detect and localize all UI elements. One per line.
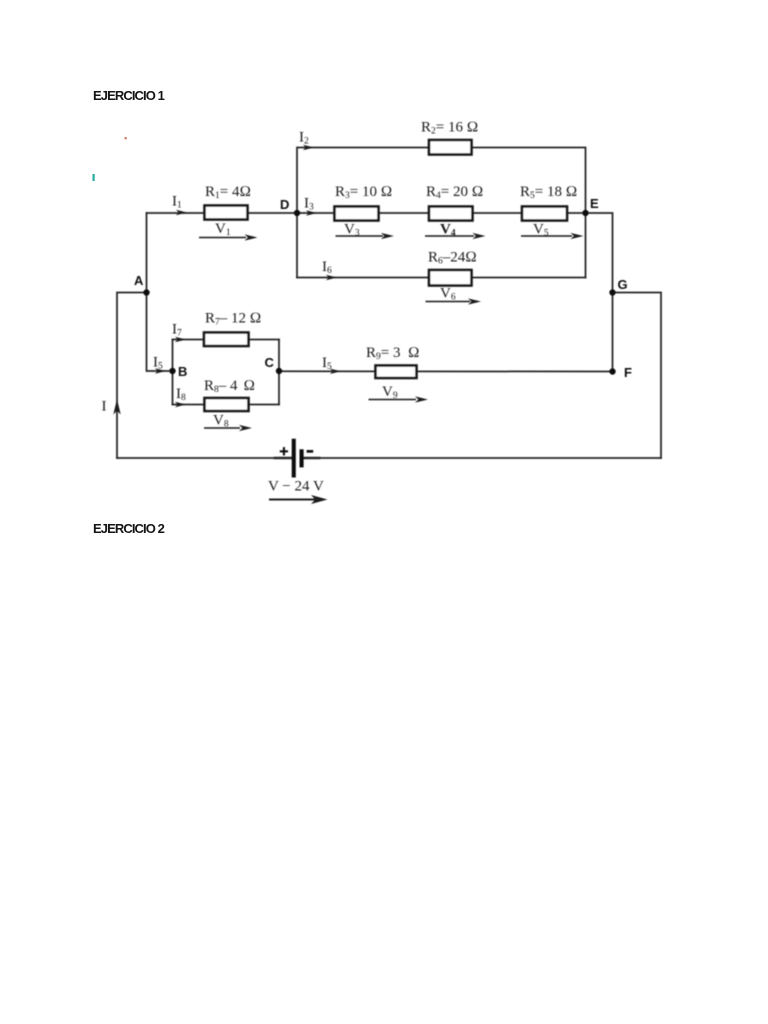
svg-text:F: F <box>624 365 632 380</box>
svg-text:R7– 12 Ω: R7– 12 Ω <box>205 311 261 328</box>
svg-text:R9= 3Ω: R9= 3Ω <box>366 345 420 362</box>
svg-text:R2= 16 Ω: R2= 16 Ω <box>421 120 478 137</box>
svg-text:E: E <box>590 196 599 211</box>
svg-text:R8– 4Ω: R8– 4Ω <box>204 378 255 395</box>
svg-text:D: D <box>280 197 289 212</box>
svg-text:EJERCICIO 2: EJERCICIO 2 <box>93 521 165 536</box>
svg-text:R1= 4Ω: R1= 4Ω <box>205 184 251 201</box>
svg-text:EJERCICIO 1: EJERCICIO 1 <box>93 88 165 103</box>
svg-text:V − 24 V: V − 24 V <box>268 479 324 495</box>
svg-text:C: C <box>265 355 275 370</box>
svg-text:R6–24Ω: R6–24Ω <box>428 250 477 267</box>
svg-text:G: G <box>618 277 628 292</box>
svg-text:R3= 10 Ω: R3= 10 Ω <box>335 184 392 201</box>
svg-text:B: B <box>178 364 187 379</box>
svg-text:A: A <box>134 273 144 288</box>
svg-text:R5= 18 Ω: R5= 18 Ω <box>520 184 577 201</box>
svg-text:I: I <box>102 399 107 415</box>
svg-text:R4= 20 Ω: R4= 20 Ω <box>426 184 483 201</box>
